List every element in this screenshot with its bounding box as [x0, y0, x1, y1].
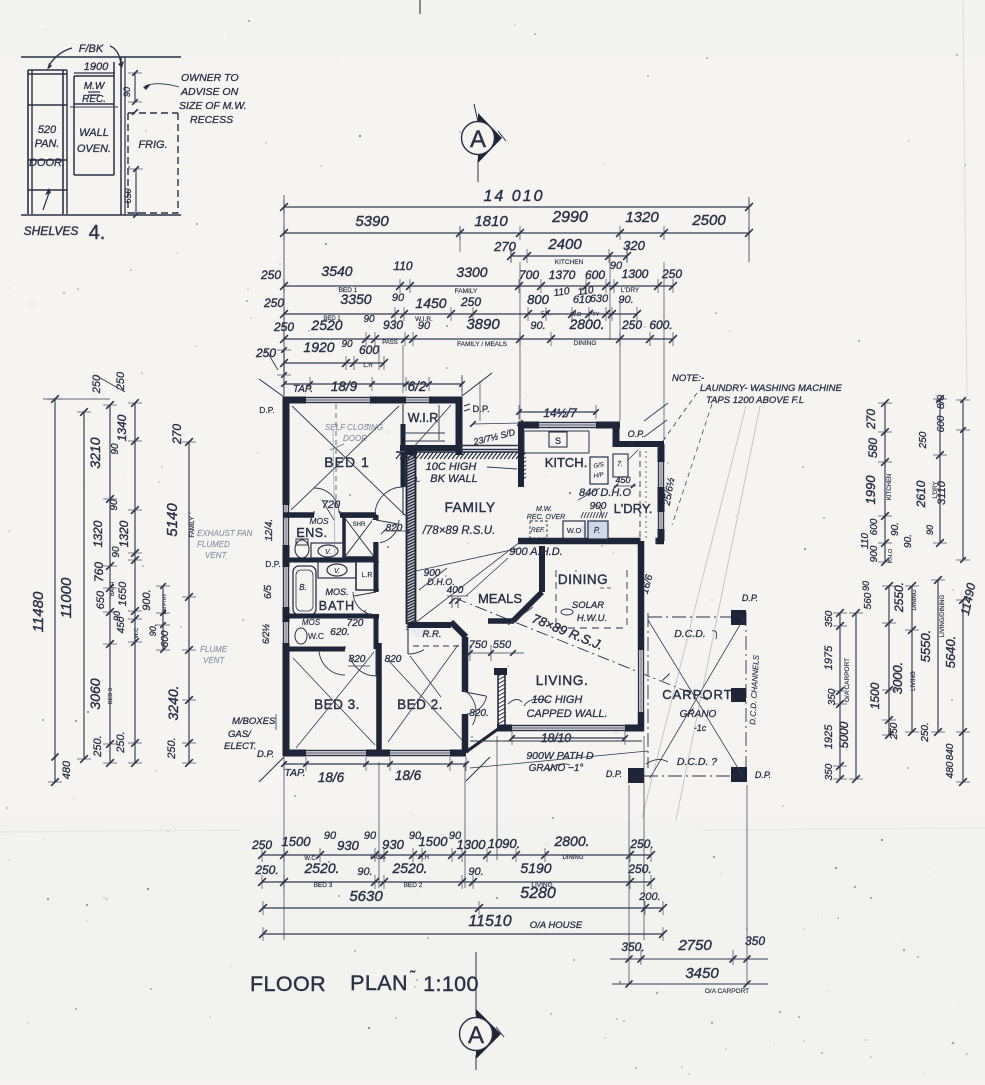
dining right wall [638, 541, 645, 628]
svg-text:OVEN.: OVEN. [77, 143, 111, 155]
shower [344, 516, 375, 558]
svg-text:PASS: PASS [370, 855, 386, 861]
svg-text:EXHAUST FAN: EXHAUST FAN [197, 529, 253, 538]
90 recess dim [134, 73, 136, 102]
right chains upper [884, 403, 886, 562]
svg-text:3540: 3540 [321, 263, 352, 279]
kitchen left wall [518, 425, 524, 487]
shelves unit [27, 70, 29, 214]
wc bottom wall [283, 647, 345, 652]
svg-text:2750: 2750 [677, 937, 712, 954]
svg-text:OWNER TO: OWNER TO [181, 72, 239, 84]
left wall [283, 397, 290, 756]
bottom wall beds [283, 750, 466, 757]
left chain 2 [134, 403, 136, 763]
P box [588, 521, 608, 539]
svg-text:LIVING.: LIVING. [536, 673, 589, 688]
svg-text:18/9: 18/9 [331, 379, 358, 394]
svg-text:F/BK: F/BK [79, 43, 104, 55]
svg-text:D.P.: D.P. [742, 593, 758, 603]
left chain 3 small [162, 586, 164, 650]
svg-text:V.: V. [334, 568, 340, 575]
svg-text:FAMILY: FAMILY [444, 500, 495, 515]
svg-text:L.R: L.R [363, 363, 373, 369]
svg-text:CAPPED WALL.: CAPPED WALL. [526, 708, 607, 720]
top wall bed1/wir [283, 397, 462, 404]
svg-text:FAMILY: FAMILY [455, 288, 478, 295]
svg-text:1975: 1975 [823, 645, 835, 670]
svg-text:O/A CARPORT: O/A CARPORT [705, 988, 749, 995]
bottom row 2 [262, 881, 651, 883]
carport beams [648, 616, 746, 618]
svg-text:FLUME: FLUME [200, 645, 228, 654]
svg-text:P.H.O: P.H.O [888, 548, 894, 563]
divider column [120, 57, 122, 215]
svg-text:630: 630 [590, 293, 609, 305]
svg-text:18/6: 18/6 [395, 768, 422, 783]
svg-text:SHR: SHR [353, 522, 366, 528]
svg-text:BED 3: BED 3 [314, 882, 333, 889]
svg-text:F.R.: F.R. [541, 311, 551, 317]
svg-text:LAUNDRY- WASHING MACHINE: LAUNDRY- WASHING MACHINE [700, 383, 842, 394]
W.I.R right exterior wall [456, 397, 463, 455]
svg-text:12/4.: 12/4. [264, 519, 275, 541]
svg-text:O/A CARPORT: O/A CARPORT [844, 658, 851, 702]
svg-text:700: 700 [519, 268, 539, 282]
svg-text:BATH: BATH [110, 582, 116, 596]
svg-text:90.: 90. [903, 534, 914, 548]
WC toilet ens [295, 540, 309, 558]
svg-text:6/2½: 6/2½ [261, 624, 271, 645]
svg-text:V.: V. [325, 549, 331, 556]
svg-text:FRIG.: FRIG. [138, 139, 167, 151]
svg-text:SIZE OF M.W.: SIZE OF M.W. [179, 100, 247, 112]
svg-text:840: 840 [945, 743, 956, 760]
svg-text:ADVISE ON: ADVISE ON [180, 86, 239, 98]
svg-text:5390: 5390 [355, 213, 389, 230]
svg-text:1090.: 1090. [488, 836, 521, 851]
svg-text:5630: 5630 [349, 888, 383, 905]
hatched brick wall vertical [407, 452, 416, 624]
WO box [563, 521, 585, 539]
svg-text:650: 650 [123, 188, 133, 203]
svg-text:14 010: 14 010 [484, 188, 545, 205]
svg-text:WALL: WALL [79, 127, 109, 139]
svg-text:90: 90 [364, 830, 377, 842]
svg-text:90: 90 [109, 499, 120, 511]
dim extension verticals [519, 262, 521, 421]
svg-text:ELECT.: ELECT. [224, 741, 256, 752]
svg-text:200.: 200. [638, 891, 660, 903]
stove G/S H/P [590, 457, 608, 484]
svg-text:1320: 1320 [91, 520, 105, 547]
svg-text:2520.: 2520. [391, 860, 427, 876]
svg-text:DINING: DINING [558, 572, 608, 587]
svg-text:350: 350 [824, 763, 835, 780]
svg-text:/78×89 R.S.U.: /78×89 R.S.U. [422, 525, 496, 537]
top dim row 14010 [284, 206, 749, 208]
svg-text:90: 90 [363, 314, 375, 325]
svg-text:W.O: W.O [567, 526, 582, 535]
svg-text:560: 560 [863, 592, 874, 609]
living bottom wall + window [497, 725, 644, 732]
svg-text:1320: 1320 [625, 209, 659, 226]
svg-text:250: 250 [621, 318, 642, 332]
laundry right wall [658, 444, 665, 541]
pencil diagonal lines [642, 406, 746, 818]
top dim row 3540/110/3300 [284, 285, 673, 287]
svg-text:A: A [470, 126, 486, 153]
svg-text:M.W: M.W [84, 81, 106, 92]
svg-text:750: 750 [469, 639, 488, 651]
svg-text:600: 600 [869, 518, 880, 535]
svg-text:11000: 11000 [58, 577, 75, 618]
svg-text:LIVING/DINING: LIVING/DINING [940, 594, 946, 637]
right laundry chain [939, 399, 941, 543]
svg-text:3890: 3890 [466, 316, 500, 333]
svg-text:3060: 3060 [87, 678, 103, 709]
wall oven box [74, 174, 114, 176]
svg-text:1300: 1300 [457, 837, 487, 852]
ens/bath wall [283, 558, 376, 563]
bed3/bed2 divider [376, 643, 382, 753]
svg-text:270: 270 [170, 424, 184, 445]
svg-text:600: 600 [585, 268, 605, 282]
svg-text:2800.: 2800. [568, 316, 604, 332]
svg-text:FLUMED: FLUMED [197, 540, 230, 549]
svg-text:18/6: 18/6 [318, 770, 345, 785]
svg-text:MEALS: MEALS [478, 591, 522, 606]
section marker A bottom [475, 952, 477, 1015]
bed2 SE door [462, 637, 469, 753]
note leader dashes [658, 393, 697, 448]
svg-text:6/2: 6/2 [408, 379, 427, 394]
window dim row above top wall [284, 383, 462, 385]
svg-text:450: 450 [615, 475, 630, 485]
svg-text:SHELVES: SHELVES [24, 224, 79, 238]
svg-text:90: 90 [392, 292, 405, 304]
svg-text:250: 250 [91, 374, 103, 394]
bed2 top wall [408, 622, 451, 628]
svg-text:250.: 250. [115, 731, 127, 753]
svg-text:REF.: REF. [531, 527, 545, 534]
svg-text:BK WALL: BK WALL [430, 473, 478, 485]
svg-text:KITCH.: KITCH. [545, 455, 588, 470]
W.I.R [400, 445, 462, 451]
svg-text:320: 320 [623, 238, 645, 253]
svg-text:DINING: DINING [912, 589, 918, 610]
svg-text:450: 450 [116, 616, 127, 633]
svg-text:90: 90 [110, 443, 121, 455]
svg-text:ENS.: ENS. [296, 526, 327, 540]
svg-text:2800.: 2800. [553, 833, 589, 849]
svg-text:D.C.D.: D.C.D. [674, 628, 706, 640]
svg-text:H.W.U.: H.W.U. [577, 613, 607, 624]
top dim row 5390/1810/2990/1320/2500 [284, 232, 749, 234]
bath room [293, 566, 316, 615]
svg-text:90.: 90. [618, 294, 633, 306]
svg-text:D.P.: D.P. [755, 770, 771, 780]
REF box [530, 521, 547, 538]
svg-text:2520: 2520 [310, 317, 342, 333]
svg-text:P.: P. [594, 526, 601, 535]
svg-text:KITCHEN: KITCHEN [887, 474, 893, 500]
svg-text:M/BOXES: M/BOXES [232, 716, 276, 727]
svg-text:90.: 90. [890, 522, 901, 536]
svg-text:3300: 3300 [456, 264, 487, 280]
svg-text:VENT: VENT [203, 656, 225, 665]
svg-text:350: 350 [745, 934, 765, 948]
bed1 cross diagonals [292, 406, 408, 518]
650 dim [135, 169, 137, 215]
svg-text:TAP.: TAP. [284, 767, 305, 779]
svg-text:A: A [468, 1022, 484, 1049]
svg-text:5640.: 5640. [943, 636, 958, 669]
svg-text:270: 270 [864, 409, 878, 430]
svg-text:90: 90 [925, 525, 935, 535]
living right wall + window [638, 628, 645, 731]
svg-text:1500: 1500 [419, 834, 449, 849]
svg-text:3110: 3110 [936, 480, 948, 505]
svg-text:1340: 1340 [115, 414, 129, 441]
svg-text:250: 250 [260, 268, 281, 282]
svg-text:SELF CLOSING: SELF CLOSING [325, 423, 383, 432]
svg-text:KITCHEN: KITCHEN [555, 259, 584, 266]
M.W. recess box [74, 75, 114, 77]
svg-text:1810: 1810 [474, 213, 508, 230]
frig dashed box [128, 112, 178, 114]
ENS [283, 512, 376, 518]
svg-text:DINING: DINING [574, 340, 597, 347]
svg-text:2500: 2500 [691, 212, 726, 229]
svg-text:250: 250 [918, 431, 929, 449]
svg-text:BED 2.: BED 2. [397, 697, 443, 712]
RSJ diagonal [455, 598, 708, 700]
svg-text:550: 550 [493, 639, 512, 651]
svg-text:1920: 1920 [303, 339, 334, 355]
top dim row 3350/1450 [284, 313, 637, 315]
svg-text:REC.: REC. [82, 94, 106, 105]
svg-text:2400: 2400 [547, 236, 582, 253]
svg-text:110: 110 [393, 259, 412, 273]
svg-text:600.: 600. [649, 318, 672, 332]
svg-text:90.: 90. [468, 866, 483, 878]
svg-text:GAS/: GAS/ [228, 729, 252, 740]
bottom right carport dims [610, 958, 768, 960]
svg-text:D.P.: D.P. [265, 559, 280, 569]
right bottom 480/840 [962, 600, 964, 782]
svg-text:W.C: W.C [308, 631, 324, 641]
svg-text:PAN.: PAN. [35, 138, 60, 150]
svg-text:FAMILY: FAMILY [190, 517, 196, 538]
svg-text:250: 250 [460, 295, 481, 309]
svg-text:R.R.: R.R. [423, 629, 442, 640]
svg-text:BATH: BATH [319, 599, 355, 613]
svg-text:90.: 90. [148, 624, 158, 637]
cabinet detail top-left [21, 56, 181, 58]
carport diagonals [648, 620, 744, 778]
laundry/kitchen bottom wall [518, 538, 640, 545]
svg-text:650: 650 [95, 590, 107, 609]
svg-text:250.: 250. [166, 737, 178, 759]
vanity ens [311, 543, 344, 558]
meals nib wall [539, 546, 545, 592]
svg-text:DINING: DINING [563, 855, 584, 861]
svg-text:90: 90 [324, 830, 337, 842]
svg-text:6/5: 6/5 [263, 585, 274, 599]
laundry door dashes [639, 451, 641, 538]
right chain A [888, 586, 890, 735]
svg-text:900.: 900. [141, 589, 153, 610]
svg-text:REC. OVER: REC. OVER [527, 514, 566, 521]
svg-text:NIB PTRY: NIB PTRY [162, 594, 167, 615]
svg-text:270: 270 [493, 239, 516, 254]
svg-text:W.C: W.C [134, 628, 140, 638]
kitchen left wall hatch [518, 453, 526, 458]
kitchen/laundry step [613, 425, 620, 447]
svg-text:250.: 250. [627, 862, 651, 876]
svg-text:W.I.R: W.I.R [408, 411, 439, 425]
svg-text:1990: 1990 [863, 475, 878, 505]
left chain 1 [109, 405, 111, 763]
svg-text:10C HIGH: 10C HIGH [426, 461, 477, 473]
svg-text:1320: 1320 [117, 520, 131, 547]
svg-text:3210: 3210 [87, 437, 103, 468]
svg-text:1:100: 1:100 [423, 972, 479, 996]
svg-text:110: 110 [553, 286, 571, 299]
svg-text:FAMILY / MEALS: FAMILY / MEALS [457, 341, 508, 348]
svg-text:FLOOR: FLOOR [250, 972, 326, 996]
right chain C [937, 580, 939, 732]
svg-text:MOS: MOS [309, 516, 329, 526]
svg-text:250: 250 [889, 722, 900, 740]
svg-text:10C HIGH: 10C HIGH [532, 694, 583, 706]
svg-text:MOS.: MOS. [325, 587, 348, 597]
svg-text:TAP.: TAP. [293, 384, 313, 395]
bottom row 1 [262, 854, 651, 856]
svg-text:11480: 11480 [30, 591, 47, 632]
svg-text:PLAN: PLAN [350, 971, 408, 995]
svg-text:840 D.H.O: 840 D.H.O [579, 487, 631, 499]
svg-text:S: S [555, 436, 561, 446]
svg-text:250: 250 [255, 346, 276, 360]
svg-text:1300: 1300 [622, 267, 649, 281]
courtyard hatched wall: ground line + hatch below [396, 451, 524, 453]
top dim row 270/2400/320 kitchen [511, 255, 627, 257]
svg-text:DOOR.: DOOR. [29, 157, 65, 169]
carport oa chain [839, 613, 841, 779]
svg-text:1500: 1500 [868, 682, 882, 709]
svg-text:800: 800 [527, 292, 549, 307]
svg-text:250: 250 [263, 296, 284, 310]
svg-text:5000: 5000 [837, 721, 851, 748]
svg-text:250.: 250. [629, 837, 653, 851]
svg-text:1450: 1450 [415, 295, 446, 311]
svg-text:600: 600 [936, 415, 947, 432]
svg-text:3350: 3350 [340, 291, 371, 307]
svg-text:90: 90 [122, 87, 132, 97]
svg-text:2990: 2990 [551, 209, 588, 226]
svg-text:480: 480 [945, 761, 956, 778]
LR linen [356, 562, 379, 590]
svg-text:580: 580 [866, 438, 880, 458]
right top 600 810 [962, 400, 964, 560]
svg-text:520: 520 [38, 124, 57, 136]
svg-text:900: 900 [869, 545, 880, 562]
svg-text:7.: 7. [617, 461, 623, 468]
svg-text:3240.: 3240. [165, 685, 181, 720]
svg-text:BED 2: BED 2 [404, 882, 423, 889]
svg-text:820: 820 [349, 654, 366, 665]
top dim row 2520/930/3890/2800 [284, 338, 673, 340]
svg-text:GRANO −1°: GRANO −1° [529, 763, 584, 774]
svg-text:250: 250 [115, 371, 127, 391]
svg-text:250: 250 [273, 320, 294, 334]
svg-text:4.: 4. [89, 222, 106, 244]
svg-text:250: 250 [251, 838, 272, 852]
svg-text:O.P.: O.P. [628, 429, 645, 439]
svg-text:RECESS: RECESS [190, 114, 233, 126]
svg-text:PASS: PASS [382, 340, 398, 346]
svg-text:D.P.: D.P. [259, 405, 274, 415]
svg-text:3450: 3450 [685, 965, 719, 982]
living left stub (hatched) [497, 671, 499, 728]
svg-text:1370: 1370 [549, 268, 576, 282]
svg-text:B.: B. [299, 583, 307, 592]
svg-text:SOLAR: SOLAR [572, 600, 604, 611]
svg-text:1925: 1925 [823, 724, 835, 749]
svg-text:5550.: 5550. [918, 630, 933, 663]
svg-text:760: 760 [92, 562, 106, 582]
svg-text:14½/7: 14½/7 [543, 406, 578, 420]
svg-text:480: 480 [61, 760, 73, 779]
svg-text:90: 90 [418, 320, 431, 332]
svg-text:90: 90 [861, 581, 871, 591]
sliding door 23/7.5 S/D [460, 445, 523, 447]
svg-text:930: 930 [382, 837, 404, 852]
svg-text:MOS: MOS [302, 618, 321, 627]
svg-text:930: 930 [383, 318, 403, 332]
svg-text:900 A.H.D.: 900 A.H.D. [509, 546, 562, 558]
svg-text:M.W.: M.W. [536, 506, 552, 513]
right chain B [911, 586, 913, 732]
svg-text:350: 350 [824, 610, 835, 627]
svg-text:5190: 5190 [520, 860, 551, 876]
svg-text:90: 90 [341, 339, 353, 350]
svg-text:820.: 820. [469, 708, 488, 719]
svg-text:2610: 2610 [914, 480, 928, 508]
kitchen interior [524, 430, 589, 432]
left chain family [188, 442, 190, 763]
svg-text:720: 720 [347, 618, 364, 629]
svg-text:L'DRY.: L'DRY. [614, 501, 653, 516]
svg-text:5280: 5280 [520, 885, 556, 902]
svg-text:820: 820 [386, 523, 403, 534]
hall side wall [374, 515, 379, 649]
trough laundry [613, 454, 628, 477]
svg-text:3000.: 3000. [890, 662, 905, 695]
section marker A top [474, 104, 478, 122]
svg-text:8/0: 8/0 [936, 395, 947, 409]
svg-text:90.: 90. [530, 320, 545, 332]
top dim row 1920/600 [284, 362, 384, 364]
svg-text:O/A HOUSE: O/A HOUSE [530, 920, 583, 931]
svg-text:600: 600 [359, 343, 379, 357]
svg-text:D.P.: D.P. [257, 749, 274, 760]
svg-text:930: 930 [337, 838, 359, 853]
carport posts [731, 610, 746, 625]
svg-text:D.C.D. ?: D.C.D. ? [677, 756, 717, 768]
